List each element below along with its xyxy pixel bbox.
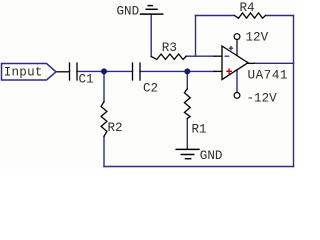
svg-text:R1: R1 — [192, 123, 207, 137]
svg-text:C1: C1 — [79, 73, 94, 87]
svg-text:R3: R3 — [162, 41, 177, 55]
svg-text:GND: GND — [200, 149, 223, 163]
svg-text:GND: GND — [117, 5, 140, 19]
svg-text:-12V: -12V — [247, 92, 278, 106]
svg-text:R2: R2 — [108, 121, 123, 135]
svg-text:R4: R4 — [240, 1, 255, 15]
svg-text:12V: 12V — [246, 31, 269, 45]
svg-text:Input: Input — [4, 65, 43, 79]
svg-text:C2: C2 — [143, 82, 158, 96]
svg-text:UA741: UA741 — [248, 69, 289, 83]
